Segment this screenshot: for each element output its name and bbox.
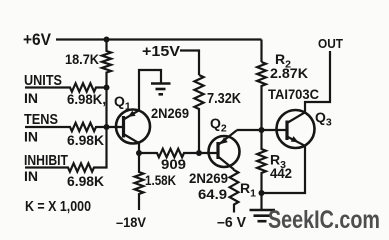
svg-text:IN: IN [24, 129, 38, 145]
resistor 1.58K [135, 153, 144, 210]
wire Q3 collector to OUT [305, 51, 330, 112]
resistor R2 2.87K [257, 62, 266, 130]
resistor R1 64.9 [230, 170, 239, 213]
Q2 collector lead with PNP arrow [218, 130, 237, 145]
svg-text:+6V: +6V [23, 30, 52, 49]
transistor Q1 circle [116, 110, 150, 144]
node A junction of rail and 18.7K [104, 37, 110, 43]
Q2 emitter lead [218, 157, 234, 170]
svg-text:6.98K: 6.98K [67, 173, 104, 189]
svg-text:18.7K: 18.7K [65, 51, 99, 67]
wire node G to ground [260, 193, 262, 210]
Q3 emitter lead with NPN arrow [287, 137, 305, 146]
wire Q1 base [107, 126, 124, 128]
transistor Q2 circle [209, 136, 240, 167]
svg-text:2N269: 2N269 [151, 105, 189, 121]
wire Q1 emitter up to ground [139, 70, 161, 110]
svg-text:TENS: TENS [24, 111, 58, 128]
Q2 base bar [216, 142, 219, 159]
svg-text:IN: IN [24, 168, 38, 184]
node E junction 7.32K / 909 / Q2 base [196, 150, 202, 156]
svg-text:+15V: +15V [142, 44, 180, 60]
node B junction units/column [104, 85, 110, 91]
Q3 base bar [285, 121, 288, 141]
ground (Q1 emitter) [151, 82, 171, 85]
node G junction R3 / Q3 emitter / ground [259, 190, 265, 196]
resistor 18.7K [102, 40, 111, 88]
svg-text:SeekIC.com: SeekIC.com [268, 206, 380, 234]
svg-text:OUT: OUT [318, 36, 343, 51]
resistor R3 442 [257, 130, 266, 193]
wire Q1 collector down to node D [138, 143, 140, 153]
wire Q3 emitter down and left to node G [262, 146, 306, 193]
resistor 6.98K (inhibit) with wire up to node C [25, 127, 107, 172]
svg-text:6.98K: 6.98K [67, 132, 104, 148]
Q3 collector lead [287, 112, 305, 123]
svg-text:–6 V: –6 V [217, 215, 246, 231]
Q1 base bar [122, 116, 125, 138]
svg-text:K = X 1,000: K = X 1,000 [25, 199, 91, 215]
svg-text:64.9: 64.9 [198, 186, 227, 202]
wire Q3 base [262, 129, 288, 131]
resistor 6.98K (tens) with wire [25, 123, 107, 131]
svg-text:909: 909 [161, 156, 186, 172]
transistor Q3 circle [277, 110, 315, 148]
svg-text:1.58K: 1.58K [145, 172, 176, 188]
svg-text:442: 442 [270, 165, 292, 181]
svg-text:TAI703C: TAI703C [268, 87, 319, 102]
wire rail corner down to R2 [260, 40, 262, 63]
svg-text:IN: IN [24, 90, 38, 106]
svg-text:7.32K: 7.32K [207, 91, 241, 107]
resistor 6.98K (units) with wire [25, 83, 107, 91]
wire Q2 base [199, 152, 218, 154]
wire Q2 collector to node F [237, 129, 262, 131]
resistor 909 with wires [139, 149, 199, 157]
svg-text:2N269: 2N269 [189, 170, 228, 186]
wire +6V rail top [56, 38, 262, 40]
node D junction Q1 collector / 909 / 1.58K [136, 150, 142, 156]
node C junction tens/column/Q1 base [104, 124, 110, 130]
wire column between units and tens junctions [105, 88, 107, 128]
svg-text:–18V: –18V [116, 214, 147, 230]
svg-text:2.87K: 2.87K [270, 65, 308, 81]
Q1 collector lead [124, 134, 140, 143]
wire +15V to resistor [180, 51, 199, 76]
Q1 emitter lead with PNP arrow [124, 110, 140, 119]
node F junction R2/R3/Q2 collector/Q3 base [259, 127, 265, 133]
ground (output stage) [250, 209, 276, 212]
svg-text:6.98K,: 6.98K, [67, 91, 106, 107]
resistor 7.32K [194, 75, 203, 153]
